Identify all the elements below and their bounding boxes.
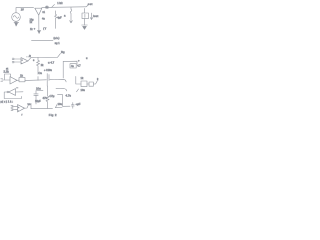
op-amp U3 <box>10 77 17 84</box>
caption rule fig 1 <box>32 39 54 41</box>
input ticks U3 <box>1 79 3 81</box>
node out hook <box>86 4 88 6</box>
resistor R2 on vertical from node B <box>37 58 40 81</box>
svg-text:out: out <box>88 2 93 6</box>
load resistor RL (box) <box>82 13 89 19</box>
svg-text:1k: 1k <box>30 21 33 24</box>
wire dash bottom <box>56 107 63 109</box>
svg-text:(a b.): (a b.) <box>54 37 60 40</box>
wire from U1 apex down <box>38 15 40 31</box>
wire V1 top to rail <box>16 7 34 12</box>
wire bracket vertical <box>62 61 64 78</box>
ground under RL <box>82 25 88 29</box>
svg-text:(1): (1) <box>46 6 49 9</box>
wire U2 input - <box>14 61 21 63</box>
svg-text:1k: 1k <box>20 74 24 78</box>
svg-text:vo: vo <box>28 102 31 106</box>
wire R4 to R5 <box>87 83 89 85</box>
svg-text:Ca: Ca <box>39 71 43 75</box>
svg-text:10u: 10u <box>36 87 41 91</box>
wire R3 to C3 <box>25 79 46 82</box>
svg-text:C7μ: C7μ <box>50 94 55 98</box>
op-amp U2 <box>21 58 28 65</box>
svg-text:2.2k: 2.2k <box>4 70 10 74</box>
svg-text:+μF: +μF <box>76 102 81 106</box>
wire U5 input + <box>12 105 18 107</box>
svg-text:1 kΩ: 1 kΩ <box>57 2 62 5</box>
svg-text:u 4.7: u 4.7 <box>48 61 55 65</box>
svg-text:+: + <box>22 59 24 61</box>
wire top rail <box>42 6 86 9</box>
svg-text:( Y: ( Y <box>43 28 46 31</box>
resistor R5 (box) <box>89 82 93 86</box>
switch tick on rail <box>52 4 55 7</box>
capacitor C6 <box>71 103 74 109</box>
resistor R4 (box) <box>81 81 87 87</box>
feedback wire U3 <box>5 74 11 80</box>
current arrow I_out <box>90 13 92 19</box>
svg-text:v1: v1 <box>42 11 45 14</box>
svg-text:10μF: 10μF <box>35 100 41 103</box>
wire U5 output with tick <box>25 105 29 108</box>
wire R5 out with tick <box>93 81 97 84</box>
wire droop to node D <box>56 79 66 82</box>
svg-text:2k: 2k <box>41 64 44 67</box>
wire U4 input <box>16 91 24 93</box>
wire U3 output <box>17 79 19 81</box>
wire L-shape bottom right <box>58 95 71 107</box>
feedback loop wire U4 <box>4 92 21 99</box>
resistor R3 (box) <box>19 78 25 82</box>
svg-text:1k: 1k <box>81 76 84 80</box>
capacitor C4 (box) <box>70 64 76 68</box>
svg-text:+: + <box>34 27 36 30</box>
svg-text:ng 1: ng 1 <box>55 42 60 45</box>
wire rail to load RL <box>84 8 86 13</box>
svg-text:10u: 10u <box>58 102 63 106</box>
svg-text:4.7: 4.7 <box>77 65 81 68</box>
capacitor C2 shunt branch with ground arrow <box>70 7 72 22</box>
resistor R6 on central vertical <box>46 86 49 108</box>
capacitor C5 branch <box>34 91 38 104</box>
svg-text:a: a <box>64 15 66 18</box>
capacitor C3 plates <box>47 74 49 87</box>
svg-text:4u: 4u <box>42 17 45 20</box>
ground arrowhead C2 <box>70 21 73 23</box>
svg-text:+ C10u: + C10u <box>44 69 52 72</box>
wire U5 input - <box>12 109 18 111</box>
wire U2 input + <box>14 58 21 60</box>
svg-text:Fig 2: Fig 2 <box>49 113 57 117</box>
svg-text:1V: 1V <box>21 9 24 12</box>
wire to R4 chain <box>76 76 81 84</box>
svg-text:s: s <box>33 59 35 62</box>
ground rail <box>31 107 53 109</box>
wire stub at C5 top <box>37 89 44 91</box>
svg-text:μ( c ) 1 k :: μ( c ) 1 k : <box>1 100 14 104</box>
svg-text:R: R <box>29 54 31 58</box>
wire U3 input <box>2 79 10 81</box>
resistor R1 shunt branch <box>55 11 57 29</box>
ground under V1 <box>14 21 18 26</box>
svg-text:+: + <box>18 107 20 109</box>
op-amp U5 <box>18 105 25 112</box>
input ticks U5 <box>11 106 13 108</box>
svg-text:47k: 47k <box>43 96 48 100</box>
svg-text:Rg: Rg <box>61 50 65 54</box>
AC source V1 <box>12 13 21 22</box>
wire RL to ground <box>84 19 86 25</box>
ground at bottom of U1 branch <box>37 31 40 34</box>
tick slash <box>77 89 79 92</box>
input ticks U2 <box>12 58 14 59</box>
svg-text:4.7u: 4.7u <box>66 94 72 98</box>
svg-text:k: k <box>97 77 99 81</box>
svg-text:+: + <box>78 60 80 63</box>
wire droop lower <box>56 89 67 91</box>
wire C3 right <box>50 79 56 81</box>
svg-text:10u: 10u <box>81 88 86 92</box>
hook tick <box>56 105 57 108</box>
wire node B to Rg <box>38 53 61 57</box>
wire bracket top <box>63 61 77 64</box>
svg-text:Iout: Iout <box>93 14 99 18</box>
buffer U1 (triangle) <box>35 8 42 15</box>
svg-text:4μF: 4μF <box>57 17 62 20</box>
wire U2 output to node B <box>28 58 38 61</box>
svg-text:r: r <box>22 113 23 117</box>
svg-text:...: ... <box>16 86 18 89</box>
wire to ground rail left <box>30 103 32 108</box>
svg-text:u: u <box>86 57 88 60</box>
inverter U4 (left-pointing) <box>7 89 16 96</box>
